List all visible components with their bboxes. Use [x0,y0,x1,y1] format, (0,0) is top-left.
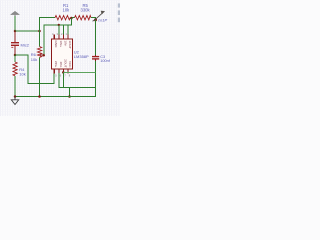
wire junction down to pin row [44,18,71,55]
wire 2OUT right [63,71,95,73]
svg-text:1OUT: 1OUT [68,41,72,49]
svg-text:GND: GND [54,41,58,49]
node R1-R5 junction [70,17,73,20]
resistor R4 [14,55,16,62]
svg-text:10k: 10k [31,57,37,62]
cut-off text right edge [118,3,120,22]
wire R4 to ground rail [14,76,16,97]
svg-text:LM358P: LM358P [74,54,89,59]
wire stub to rail [69,88,71,97]
node feedback dot [58,24,60,26]
wire C3 down to rail corner [95,61,97,97]
node R6 bottom bridge [40,54,44,56]
svg-text:10k: 10k [19,71,25,76]
node mic bottom junction [14,54,17,57]
svg-text:100nf: 100nf [100,59,110,63]
svg-text:10k: 10k [63,8,71,13]
svg-text:1IN-: 1IN- [63,41,67,47]
wire pot node down to C3 [95,20,97,55]
node rail left junction [14,95,17,98]
wire 2IN- to output line [59,73,96,88]
pin stubs top [53,35,55,40]
wire VCC to mic node [14,16,16,31]
wire pin3 drop [58,25,60,35]
capacitor C3 [92,55,111,63]
svg-text:2IN-: 2IN- [59,62,63,68]
resistor R6 [39,31,41,47]
wire pin1 drop [67,25,69,35]
svg-text:Mic2: Mic2 [21,42,30,47]
svg-text:VCC: VCC [68,61,72,68]
node rail stub junction [68,95,71,98]
wire mic bottom to 2IN+ long path [15,55,54,84]
node pot wiper junction [94,18,97,21]
wire R5 to pot node [91,18,96,20]
ground symbol [11,97,18,105]
op-amp U2 LM358P DIP-8 body [52,32,89,77]
wire 2OUT down [62,72,64,87]
wire R6 to ground rail [39,58,41,98]
wire mic node to R1/R6 column [15,30,41,32]
pin stubs bottom [53,69,55,74]
node 2OUT junction [62,71,65,74]
node rail R6 junction [38,95,41,98]
resistor R5 [75,16,92,20]
svg-text:co1P: co1P [98,18,107,23]
wire riser to R1 [40,18,56,31]
wire ground rail [15,96,96,98]
resistor R1 [55,16,70,20]
node mic top junction [14,30,17,33]
svg-text:2IN+: 2IN+ [54,61,58,68]
capacitor/mic Mic2 [11,31,30,55]
svg-text:1IN+: 1IN+ [59,41,63,48]
node R1/R6 junction [38,30,41,33]
power symbol VCC arrow [11,11,20,16]
svg-text:2OUT: 2OUT [63,59,67,67]
potentiometer wiper arrow [93,11,105,21]
wire R5 lead to junction dot [72,17,74,19]
wire pin2 drop [62,25,64,35]
svg-text:330k: 330k [81,8,91,13]
